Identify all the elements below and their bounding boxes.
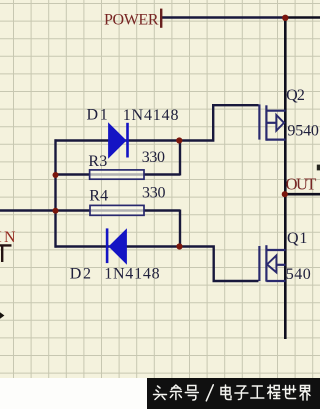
transistor Q1 (N-MOSFET) [259, 245, 285, 281]
svg-text:540: 540 [286, 266, 311, 283]
wire POWER rail right segment [285, 16, 320, 19]
svg-text:R3: R3 [88, 153, 107, 170]
junction OUT [282, 191, 288, 197]
svg-text:Q1: Q1 [287, 230, 307, 247]
watermark credit bar [0, 378, 147, 409]
svg-text:D2: D2 [70, 265, 91, 282]
left edge wedge [0, 312, 4, 318]
wire main vertical drain/source rail [284, 17, 287, 340]
svg-text:9540: 9540 [287, 123, 319, 140]
resistor R3 [90, 170, 144, 179]
wire OUT horizontal [285, 193, 320, 196]
wire R4 right riser [179, 210, 181, 248]
junction bus/IN [53, 208, 59, 214]
junction D2 row / gate riser [176, 243, 182, 249]
wire Q1 gate staircase [180, 247, 259, 282]
svg-text:Q2: Q2 [286, 87, 305, 104]
svg-text:1N4148: 1N4148 [104, 265, 159, 282]
svg-text:330: 330 [142, 184, 166, 201]
svg-text:330: 330 [142, 149, 165, 166]
diode D1 [109, 123, 129, 158]
wire left bus vertical [54, 139, 56, 247]
resistor R4 [90, 205, 144, 215]
wire D2 row [55, 245, 181, 247]
wire Q2 gate staircase [180, 105, 259, 140]
transistor Q2 (P-MOSFET) [259, 104, 285, 140]
arrow Q1 bulk [267, 255, 276, 272]
power port tick POWER [160, 9, 162, 28]
right edge mark [317, 165, 320, 171]
svg-text:D1: D1 [87, 107, 108, 124]
svg-text:OUT: OUT [286, 174, 317, 193]
junction D1 row / gate riser [176, 137, 182, 143]
diode D2 [106, 228, 127, 263]
wire R3 row [56, 173, 181, 175]
wire D1 row [55, 139, 181, 141]
arrow Q2 bulk [276, 115, 284, 131]
svg-text:R4: R4 [89, 188, 108, 205]
svg-text:POWER: POWER [104, 11, 159, 28]
wire IN / R4 row [0, 209, 180, 211]
svg-text:1N4148: 1N4148 [123, 107, 179, 124]
junction POWER rail [282, 15, 288, 21]
watermark text 头条号 / 电子工程世界 [154, 385, 311, 401]
wire R3 right riser [179, 140, 181, 176]
junction bus/R3 [53, 172, 59, 178]
wire POWER rail (navy segment) [162, 16, 285, 18]
port mark below IN [0, 245, 12, 262]
